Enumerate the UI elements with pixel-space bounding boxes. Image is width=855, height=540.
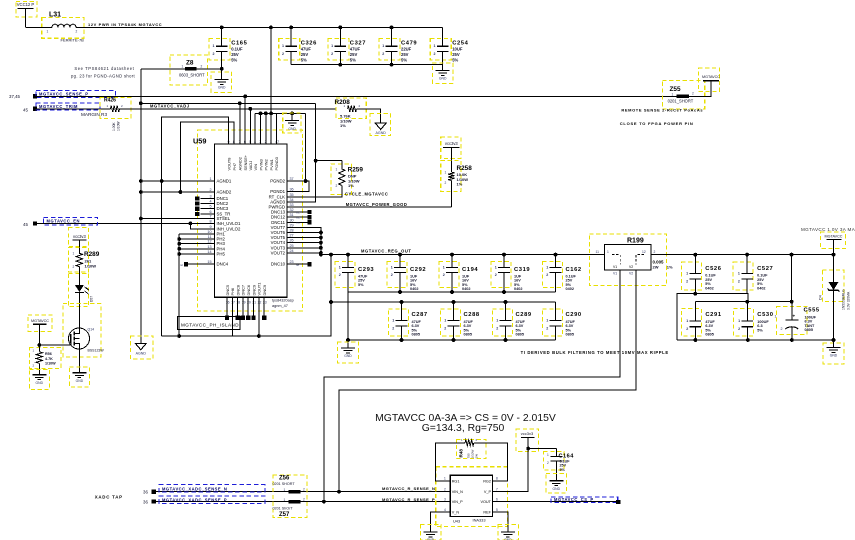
resistor R48 gain set [436,438,508,481]
svg-text:2: 2 [209,188,211,192]
wire REF to ground [501,512,508,527]
U59 left pins 1-15 [201,177,241,267]
svg-text:vcc3v3: vcc3v3 [73,234,86,239]
capacitor C165 [209,27,248,68]
svg-text:VOUT1: VOUT1 [257,283,262,296]
power flag vcc3v3 at R289 [69,228,89,254]
power flag VCC12_P [16,2,37,28]
svg-text:REF: REF [483,511,491,515]
svg-text:28: 28 [290,229,294,233]
svg-text:C254: C254 [452,40,468,46]
svg-text:C291: C291 [705,312,721,318]
svg-text:1%: 1% [457,182,463,187]
svg-text:nc: nc [180,263,184,267]
svg-text:2: 2 [303,498,305,502]
capacitor C290 [543,302,582,340]
svg-text:36: 36 [143,500,148,505]
svg-text:2: 2 [692,92,694,96]
svg-text:2: 2 [382,52,384,56]
svg-text:C526: C526 [705,266,721,272]
capacitor C527 [733,255,773,294]
ground at C164 [546,474,567,494]
wire right bank ground rail [677,338,835,342]
svg-text:26: 26 [290,239,294,243]
label MGTAVCC 1.0V 3A MAX [801,227,855,232]
wire Q14 source to ground [78,349,80,369]
svg-text:PH6: PH6 [230,288,235,296]
svg-text:PVIN1: PVIN1 [269,159,274,170]
ground at V_N [421,525,442,540]
svg-text:C287: C287 [412,312,428,318]
wire PGND2 PGND1 [301,113,310,191]
capacitor C319 [491,255,530,292]
svg-text:0805: 0805 [516,333,524,337]
svg-text:2: 2 [391,273,393,277]
svg-text:1: 1 [443,266,445,270]
svg-text:MGTAVCC_CS_P: MGTAVCC_CS_P [554,497,594,502]
wire VIN column [249,109,251,144]
svg-text:5: 5 [209,205,211,209]
svg-text:5: 5 [496,508,498,512]
net MGTAVCC_EN [23,218,215,229]
net MGTAVCC_XADC_SENSE_N [143,485,442,495]
power flag MGTAVCC gate pullup [28,315,52,345]
svg-text:PGND2: PGND2 [270,179,285,184]
wire SENSE+ column [239,103,241,144]
jumper Z55 [662,81,711,109]
svg-text:D4: D4 [819,295,823,300]
svg-text:18: 18 [236,300,240,304]
ground at REF [498,525,519,540]
svg-text:DNC7: DNC7 [241,285,246,296]
svg-text:5%: 5% [452,57,458,62]
svg-text:DNC9: DNC9 [251,285,256,296]
transistor Q14 BSS123W [63,304,104,358]
svg-text:AGND2: AGND2 [238,157,243,170]
svg-text:G=134.3, Rg=750: G=134.3, Rg=750 [422,423,505,434]
svg-text:C289: C289 [516,312,532,318]
ground below C165 [211,67,232,93]
note CS transfer function [375,413,556,434]
power flag vcc3v3 at U43 [516,429,539,452]
svg-text:0.1UF: 0.1UF [231,47,243,52]
svg-text:1: 1 [607,250,609,254]
svg-text:34: 34 [290,198,294,202]
capacitor C291 [681,302,721,340]
svg-text:8: 8 [209,219,211,223]
svg-text:2: 2 [445,181,447,185]
ground at Q14 source [70,367,90,387]
svg-text:MARGIN R3: MARGIN R3 [81,112,107,117]
svg-text:1%: 1% [340,123,346,128]
ground at U59 PGND top [283,112,301,133]
svg-text:2: 2 [686,279,688,283]
net CYCLE_MGTAVCC [345,192,388,197]
svg-text:V_P: V_P [484,490,492,494]
net MGTAVCC_TRIM [23,103,111,113]
svg-text:6: 6 [209,210,211,214]
svg-text:3: 3 [209,195,211,199]
svg-text:MGTAVCC_R_SENSE_P: MGTAVCC_R_SENSE_P [382,497,435,502]
svg-text:32: 32 [290,208,294,212]
svg-text:15: 15 [207,260,211,264]
svg-text:1: 1 [336,167,338,171]
svg-text:37,45: 37,45 [9,94,21,99]
capacitor C479 [379,27,417,64]
svg-text:12: 12 [642,250,646,254]
svg-text:0402: 0402 [462,287,470,291]
svg-text:1: 1 [391,266,393,270]
wire gate [37,343,70,347]
wire 12V input rail [26,22,443,29]
svg-text:VOUT8: VOUT8 [227,158,232,171]
note PGND-AGND short [71,66,136,79]
svg-text:2: 2 [686,327,688,331]
svg-text:37: 37 [290,177,294,181]
analog ground AGND left [131,336,154,359]
resistor R199 current shunt [589,234,673,286]
svg-text:2: 2 [546,273,548,277]
svg-text:PH5: PH5 [217,252,226,257]
svg-text:C555: C555 [804,308,820,314]
svg-text:1: 1 [392,319,394,323]
svg-text:1: 1 [445,171,447,175]
svg-text:5%: 5% [301,57,307,62]
svg-text:GND: GND [76,379,84,383]
svg-text:11: 11 [208,235,212,239]
svg-text:GND: GND [344,354,352,358]
svg-text:CLOSE TO FPGA POWER PIN: CLOSE TO FPGA POWER PIN [620,121,694,126]
capacitor C164 [528,449,574,475]
no-connect DNC11-13 pins 30-32 [297,210,312,225]
capacitor C162 [543,255,582,292]
svg-text:1: 1 [284,488,286,492]
svg-text:C162: C162 [566,267,582,273]
wire row2 top rail [331,300,556,304]
svg-text:45: 45 [23,222,28,227]
svg-text:22: 22 [258,300,262,304]
svg-text:1: 1 [213,44,215,48]
svg-text:Q14: Q14 [88,328,95,332]
svg-text:PGND3: PGND3 [274,157,279,170]
svg-text:AGND: AGND [136,351,147,355]
svg-text:0402: 0402 [757,287,765,291]
svg-text:0805: 0805 [705,333,713,337]
svg-text:0201 ShOrT: 0201 ShOrT [273,506,294,510]
svg-text:2: 2 [546,326,548,330]
LED D57 [69,267,94,328]
capacitor C555 tantalum [775,302,820,340]
wire row2 ground rail [348,338,556,342]
svg-text:0201_SHORT: 0201_SHORT [668,99,694,104]
resistor R208 [335,98,381,128]
svg-text:VIN: VIN [253,164,258,171]
analog ground AGND under R208 [370,114,391,136]
svg-text:AGND1: AGND1 [217,179,232,184]
svg-text:2: 2 [434,52,436,56]
svg-text:1: 1 [738,272,740,276]
svg-text:MGTAVCC_XADC_SENSE_N: MGTAVCC_XADC_SENSE_N [162,486,227,491]
capacitor C289 [493,302,532,340]
svg-text:0805: 0805 [805,328,813,332]
svg-text:MGTAVCC_SENSE_P: MGTAVCC_SENSE_P [39,92,89,97]
node MGTAVCC_PH_ISLAND [178,317,241,330]
wire reg out to row2 [162,255,333,338]
svg-text:1: 1 [775,315,777,319]
svg-text:AGND: AGND [376,131,387,135]
svg-text:2: 2 [738,327,740,331]
wire VOUT1 down [257,297,261,338]
svg-text:C527: C527 [757,266,773,272]
svg-text:GND: GND [830,354,838,358]
U59 right pins 23-37 [269,177,301,267]
svg-text:C288: C288 [464,312,480,318]
svg-text:DNC4: DNC4 [217,262,229,267]
svg-text:VOUT: VOUT [480,500,491,504]
svg-text:MGTAVCC_POWER_GOOD: MGTAVCC_POWER_GOOD [346,202,408,207]
svg-text:0201 SHORT: 0201 SHORT [273,482,296,486]
no-connect DNC4 pin15 [180,262,201,267]
net MGTAVCC_POWER_GOOD [301,202,452,207]
svg-text:R56: R56 [45,352,52,356]
svg-text:D57: D57 [90,296,94,302]
svg-text:GND: GND [553,487,561,491]
capacitor C292 [387,255,426,292]
wire R199 V1 sense [322,270,620,503]
svg-text:INA333: INA333 [473,518,486,523]
svg-text:4: 4 [209,200,211,204]
svg-text:5%: 5% [350,57,356,62]
svg-text:C293: C293 [358,267,374,273]
capacitor C254 [430,27,468,64]
svg-text:2W: 2W [653,265,659,270]
svg-text:2: 2 [496,326,498,330]
svg-text:V_N: V_N [452,511,460,515]
svg-text:0402: 0402 [566,287,574,291]
svg-text:23: 23 [290,260,294,264]
net MGTAVCC_R_SENSE_N label [382,486,435,491]
jumper Z8 [141,55,222,85]
svg-text:22UF: 22UF [401,47,412,52]
net MGTAVCC_CS_P [501,497,621,504]
capacitor C288 [441,302,480,340]
svg-text:U59: U59 [193,137,206,146]
svg-text:0402: 0402 [705,287,713,291]
svg-text:25V: 25V [401,52,409,57]
ground mid bank [338,342,359,363]
svg-text:1: 1 [209,177,211,181]
svg-text:12: 12 [207,240,211,244]
IC U59 TPS84621 power module [193,130,303,311]
svg-text:2: 2 [303,487,305,491]
svg-text:nc: nc [297,210,301,214]
svg-text:C319: C319 [514,267,530,273]
svg-text:1: 1 [339,266,341,270]
U59 bottom no-connect stubs [225,297,266,320]
svg-text:0805: 0805 [412,333,420,337]
svg-text:U43: U43 [453,518,460,523]
svg-text:4: 4 [444,508,446,512]
svg-text:DNC5: DNC5 [225,285,230,296]
svg-text:3.0V 320MA: 3.0V 320MA [847,291,851,310]
svg-text:MGTAVCC: MGTAVCC [825,234,843,238]
svg-text:MGTAVCC_PH_ISLAND: MGTAVCC_PH_ISLAND [181,322,239,327]
svg-text:2: 2 [547,461,549,465]
svg-text:2: 2 [201,65,203,69]
svg-text:1: 1 [546,319,548,323]
svg-text:1: 1 [686,319,688,323]
svg-text:31: 31 [290,213,294,217]
wire row1 ground rail [348,290,556,294]
svg-text:2: 2 [738,279,740,283]
wire right bank row2 rail [695,255,793,304]
svg-text:20: 20 [247,300,251,304]
svg-text:C479: C479 [401,40,417,46]
svg-text:TI DERIVED BULK FILTERING TO M: TI DERIVED BULK FILTERING TO MEET 10MV M… [521,350,669,355]
power flag vcc3v3 at R258 [441,137,461,172]
svg-text:1.00K: 1.00K [112,122,116,131]
svg-text:5%: 5% [401,57,407,62]
svg-text:vcc3v3: vcc3v3 [521,431,534,436]
wire PH bus [177,234,214,336]
svg-text:MGTAVCC_XADC_SENSE_P: MGTAVCC_XADC_SENSE_P [162,498,227,503]
svg-text:R289: R289 [84,251,100,258]
svg-text:GND: GND [288,127,296,131]
svg-text:8: 8 [496,477,498,481]
svg-text:nc: nc [296,263,300,267]
resistor R259 [301,161,364,197]
svg-text:0805: 0805 [566,333,574,337]
svg-text:24: 24 [290,249,294,253]
svg-text:2: 2 [339,273,341,277]
svg-text:BSS123W: BSS123W [88,349,105,353]
svg-text:C530: C530 [757,312,773,318]
svg-text:1: 1 [686,272,688,276]
svg-text:R208: R208 [335,99,351,106]
svg-text:1/10W: 1/10W [45,362,56,366]
svg-text:19: 19 [242,300,246,304]
svg-text:2: 2 [213,52,215,56]
svg-text:1/10W: 1/10W [117,121,121,131]
svg-text:INH_UVLO1: INH_UVLO1 [217,221,241,226]
wire AGND1 loop [139,117,229,336]
svg-text:VCC12 P: VCC12 P [17,2,35,7]
svg-text:Z57: Z57 [279,512,290,518]
svg-text:V2: V2 [629,265,633,269]
wire VADJ to R259 [301,103,342,202]
power flag MGTAVCC remote sense [698,68,720,92]
U59 bottom pins [225,283,267,305]
svg-text:Z8: Z8 [186,60,194,67]
svg-text:23: 23 [263,300,267,304]
svg-text:1: 1 [547,453,549,457]
svg-text:MGTAVCC_REG_OUT: MGTAVCC_REG_OUT [361,249,411,254]
svg-text:0402: 0402 [514,287,522,291]
svg-text:L31: L31 [49,12,61,19]
svg-text:0805: 0805 [464,333,472,337]
svg-text:1: 1 [444,319,446,323]
svg-text:RG1: RG1 [452,479,460,483]
svg-text:VOUT2: VOUT2 [271,250,286,255]
capacitor C326 [279,27,317,64]
wire Z8 PGND-AGND vertical [140,69,142,344]
note remote sense [620,108,704,127]
wire V_P supply [501,449,529,492]
svg-text:C290: C290 [566,312,582,318]
svg-text:1%: 1% [348,183,354,188]
capacitor C530 [733,302,773,340]
resistor R289 [69,248,100,273]
svg-text:CYCLE_MGTAVCC: CYCLE_MGTAVCC [345,192,388,197]
svg-text:1: 1 [182,65,184,69]
svg-text:25V: 25V [350,52,358,57]
svg-text:R199: R199 [627,238,644,245]
svg-text:13: 13 [207,245,211,249]
svg-text:MGTAVCC_R_SENSE_N: MGTAVCC_R_SENSE_N [382,486,435,491]
inductor L31 [42,12,84,43]
svg-text:29: 29 [290,223,294,227]
note ripple filtering [521,350,669,355]
svg-text:+: + [793,313,796,318]
svg-text:1: 1 [444,477,446,481]
svg-text:6: 6 [496,497,498,501]
svg-text:1: 1 [331,44,333,48]
wire R199 V2 sense [337,270,636,494]
svg-text:1: 1 [496,319,498,323]
svg-text:1: 1 [546,266,548,270]
svg-text:1: 1 [284,498,286,502]
net MGTAVCC_XADC_SENSE_P [143,496,442,505]
svg-text:30: 30 [290,218,294,222]
jumper Z57 [273,498,306,519]
capacitor C293 [335,255,374,292]
svg-text:See TPS84621 datasheet: See TPS84621 datasheet [74,66,134,71]
wire MGTAVCC_TRIM to R208 [120,107,337,111]
svg-text:1: 1 [73,252,75,256]
svg-text:C326: C326 [301,40,317,46]
capacitor C194 [439,255,478,292]
svg-text:35: 35 [290,193,294,197]
svg-text:agnm_47: agnm_47 [272,304,288,308]
svg-text:1: 1 [282,44,284,48]
svg-text:AGND2: AGND2 [217,190,232,195]
svg-text:PH7: PH7 [232,163,237,171]
svg-text:2: 2 [444,326,446,330]
wire right bank mid rail [677,292,748,340]
svg-text:DNC6: DNC6 [246,285,251,296]
U43 pins [442,477,501,515]
svg-text:R259: R259 [348,167,364,174]
net MGTAVCC_SENSE_P [9,90,676,99]
svg-text:1N5339BRLG: 1N5339BRLG [842,289,846,310]
svg-text:27: 27 [290,234,294,238]
svg-text:47UF: 47UF [350,47,361,52]
capacitor C327 [328,27,366,64]
svg-text:10: 10 [207,230,211,234]
wire PVIN bus [255,27,305,144]
svg-text:5%: 5% [560,468,566,472]
svg-text:REMOTE SENSE 2-ReCeT PoAcAs: REMOTE SENSE 2-ReCeT PoAcAs [621,108,703,113]
svg-text:47: 47 [275,140,279,144]
svg-text:25V: 25V [301,52,309,57]
no-connect DNC10 pin23 [296,262,312,267]
svg-text:4.7K: 4.7K [45,357,53,361]
svg-text:2: 2 [73,265,75,269]
svg-text:1%: 1% [475,454,479,459]
svg-text:V2: V2 [629,272,633,276]
svg-text:C194: C194 [462,267,478,273]
wire PH6 to island [231,297,233,336]
